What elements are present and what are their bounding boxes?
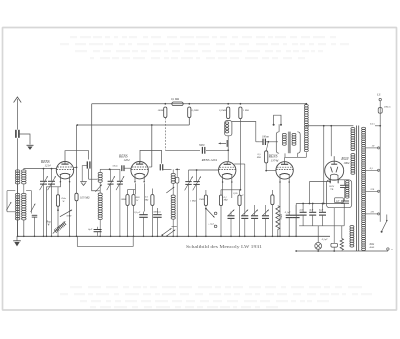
- capacitor C2 padding: [32, 214, 38, 216]
- svg-text:0,5µF: 0,5µF: [322, 238, 328, 241]
- svg-text:1064: 1064: [343, 161, 350, 165]
- node B1 R3: [164, 103, 166, 105]
- capacitor C7 50cm grid: [121, 165, 123, 171]
- wire T2 tap4: [366, 213, 379, 215]
- svg-text:1374d: 1374d: [271, 158, 279, 162]
- jack J1 sockets: [214, 212, 217, 215]
- tube V2 RENS1204: [131, 162, 148, 179]
- coil L2a grid winding top: [22, 170, 27, 172]
- transformer T2 left small winding: [346, 181, 350, 183]
- wire stage3 grid line: [175, 168, 180, 170]
- wire rail right drop: [343, 204, 345, 226]
- wire screen V2 up: [151, 125, 153, 167]
- capacitor C22 plates: [340, 184, 349, 186]
- antenna: [16, 99, 18, 130]
- wire L2 top to grid line: [24, 169, 28, 171]
- wire T1 bottom wires: [285, 153, 298, 157]
- variable capacitor C9: [119, 169, 121, 181]
- resistor R1 0.55M: [75, 193, 78, 201]
- wire V4 left leg: [279, 182, 281, 236]
- fuse LS 300cm: [378, 108, 382, 114]
- svg-text:2µF: 2µF: [299, 209, 304, 212]
- wire V2 left leg: [134, 183, 136, 194]
- wire R9 wires: [133, 190, 135, 195]
- wire rail y225: [299, 225, 344, 227]
- inductor CH2 HF choke: [304, 105, 308, 107]
- svg-text:Netz: Netz: [369, 243, 375, 246]
- jack J2 pickup: [274, 115, 281, 124]
- switch S5b: [165, 230, 174, 236]
- svg-text:1MΩ: 1MΩ: [120, 198, 125, 201]
- wire C5 down: [88, 169, 90, 180]
- wire drop x331: [330, 126, 332, 156]
- capacitor C11 bypass: [139, 214, 148, 216]
- capacitor C5 screen series: [86, 161, 88, 168]
- svg-text:MΩ: MΩ: [144, 198, 149, 201]
- variable capacitor C4 tuning: [48, 180, 55, 182]
- svg-text:1MΩ: 1MΩ: [199, 198, 204, 201]
- wire L2 bottom: [23, 220, 25, 236]
- svg-text:0,1MΩ: 0,1MΩ: [192, 109, 199, 112]
- wire V2 right leg: [144, 183, 146, 211]
- trimmer capacitor C19: [262, 215, 269, 217]
- resistor R16 zigzag: [276, 206, 280, 230]
- wire T2 tap3: [366, 190, 379, 192]
- ground below C5: [80, 181, 87, 183]
- switch S5 near bus: [163, 228, 172, 235]
- svg-text:1214: 1214: [45, 164, 52, 168]
- wire C23 vertical: [343, 203, 345, 208]
- lamp pilot: [315, 243, 322, 250]
- svg-text:0,5A: 0,5A: [370, 123, 375, 126]
- wire antenna to ground branch: [19, 134, 30, 145]
- transformer T2 left winding upper: [351, 128, 355, 130]
- resistor R8: [126, 195, 129, 206]
- wire filament link: [310, 181, 331, 183]
- wire L4 bottom to bus: [172, 219, 174, 236]
- wire R11 mid: [205, 206, 207, 209]
- wire below-bus loop: [77, 236, 133, 246]
- switch S1b wave-change mid: [31, 191, 33, 214]
- coil L2b grid winding bottom: [22, 193, 27, 195]
- resistor R6: [227, 107, 230, 119]
- tube V1 RENS1214: [56, 162, 73, 179]
- wire R10 wires: [151, 189, 153, 195]
- rheostat RegW hatched: [54, 230, 56, 233]
- wire tube V1 grid left: [55, 169, 57, 170]
- capacitor small box stage3: [176, 177, 179, 183]
- wire L3 top to grid: [100, 168, 109, 170]
- inductor CH1 anode choke: [225, 121, 232, 136]
- svg-text:4µF: 4µF: [319, 209, 324, 212]
- potentiometer arrow P1: [60, 210, 72, 217]
- resistor R17 box: [331, 243, 338, 247]
- wire RegW to bus: [57, 206, 59, 236]
- wire rail y203: [296, 203, 344, 205]
- capacitor C24 2uF: [300, 211, 307, 213]
- resistor R18 zigzag small: [340, 239, 343, 251]
- wire bus B1 HT line: [92, 103, 306, 105]
- svg-text:µF: µF: [241, 194, 244, 197]
- capacitor Cm below bus: [94, 229, 102, 231]
- resistor R11: [204, 195, 207, 206]
- wire tube V2 anode bracket: [140, 150, 162, 163]
- wire R8 wires: [127, 169, 129, 194]
- tube V5 RGN1064: [325, 161, 344, 180]
- wire V5 legs to box: [329, 180, 331, 183]
- wire C5 ground stub: [82, 166, 87, 182]
- transformer T2 core: [356, 126, 358, 252]
- switch S3 jack arm: [207, 209, 215, 218]
- svg-text:0,1MΩ: 0,1MΩ: [219, 109, 226, 112]
- resistor R7: [239, 107, 242, 119]
- wire R12 wires: [220, 190, 222, 195]
- variable capacitor C13: [188, 170, 190, 181]
- trimmer capacitor C15: [228, 215, 235, 217]
- wire tube V1 anode bracket: [65, 151, 89, 162]
- node stage1 grid junctions: [43, 168, 45, 170]
- switch S6 stage2 wavechange: [95, 185, 102, 192]
- svg-text:LS: LS: [376, 93, 381, 97]
- transformer T2 left winding low: [350, 226, 354, 228]
- svg-text:Schaltbild des Mencoly LW 1931: Schaltbild des Mencoly LW 1931: [186, 244, 262, 249]
- switch S1a wave-change left: [6, 191, 8, 212]
- wire bottom bus: [17, 235, 330, 237]
- variable capacitor C8: [110, 169, 112, 181]
- svg-text:50000: 50000: [158, 109, 165, 112]
- terminal LS: [379, 98, 381, 100]
- svg-text:1204: 1204: [124, 158, 131, 162]
- resistor R2 bias: [56, 195, 59, 207]
- coil L4a stage3 top: [171, 173, 175, 175]
- power unit box outline: [327, 180, 352, 208]
- wire V4 grid: [266, 170, 275, 172]
- wire grid coupling horizontal: [165, 149, 200, 151]
- node B1 R7: [240, 103, 242, 105]
- svg-text:5000: 5000: [66, 215, 72, 218]
- tube V4 RENS1374d: [276, 162, 293, 179]
- svg-text:←5µA: ←5µA: [208, 222, 215, 225]
- wire mains terminal: [387, 248, 389, 250]
- variable capacitor C14: [196, 170, 198, 181]
- svg-text:0,1µF: 0,1µF: [134, 211, 140, 214]
- svg-text:50cm: 50cm: [113, 164, 119, 167]
- capacitor block small TR: [335, 198, 344, 203]
- capacitor C10 coupling: [159, 164, 161, 170]
- wire R11 wires: [205, 170, 207, 195]
- capacitor C18 100cm: [262, 139, 264, 145]
- capacitor C3 tuning stub up: [43, 169, 45, 181]
- variable capacitor C3 tuning: [40, 180, 47, 182]
- wire C7 to tube V2: [124, 167, 131, 169]
- wire V3 left leg: [222, 182, 224, 195]
- ground main bus: [16, 236, 18, 240]
- wire stage1 grid line: [28, 168, 56, 170]
- svg-text:300cm: 300cm: [384, 105, 391, 108]
- wire CH1 top right branch: [232, 122, 256, 140]
- resistor R4 anode coupling: [172, 102, 183, 106]
- wire C6 to node: [206, 149, 228, 151]
- capacitor C12 bypass: [153, 214, 162, 216]
- wire V3 screen right: [234, 163, 245, 165]
- wire T1 left top: [278, 124, 280, 132]
- ground antenna branch: [27, 144, 34, 146]
- svg-text:6µF: 6µF: [88, 228, 93, 231]
- resistor R9: [132, 195, 135, 206]
- wire C22 vertical: [343, 180, 345, 186]
- wire grid2 line: [110, 168, 120, 170]
- capacitor C6 5000 series: [201, 147, 203, 154]
- capacitor C20: [286, 214, 293, 216]
- resistor R13: [238, 195, 241, 206]
- svg-text:RENS 1204: RENS 1204: [201, 158, 218, 162]
- resistor R10: [151, 195, 154, 206]
- wire T2 left top: [352, 126, 354, 128]
- wire drop x323: [323, 126, 325, 204]
- svg-text:400Ω: 400Ω: [279, 214, 282, 220]
- wire C10 to coil L4: [163, 169, 172, 171]
- wire LS down segment: [379, 126, 381, 131]
- transformer T1 AF right winding: [297, 132, 300, 153]
- capacitor C21: [293, 214, 300, 216]
- svg-text:0,55 MΩ: 0,55 MΩ: [80, 197, 89, 200]
- svg-text:0,1µF: 0,1µF: [285, 211, 291, 214]
- coil L3b grid coil stage2 lower: [98, 193, 102, 195]
- wire line3: [306, 125, 353, 127]
- wire L3 tap: [98, 190, 101, 192]
- trimmer capacitor C16: [241, 215, 248, 217]
- wire C18 right: [265, 141, 278, 143]
- capacitor C23 plates: [341, 200, 349, 202]
- node bus junction dots: [17, 236, 19, 238]
- svg-text:MΩ: MΩ: [223, 199, 228, 202]
- tube V3 RENS1204: [219, 162, 236, 179]
- wire L3b to bus: [99, 220, 101, 237]
- wire V1 cathode left leg: [47, 182, 61, 236]
- svg-text:1 MΩ: 1 MΩ: [190, 200, 196, 203]
- svg-text:100cm: 100cm: [262, 136, 269, 139]
- wire V4 right leg: [288, 182, 290, 211]
- resistor R12: [219, 195, 222, 206]
- wire bus B2 screen line: [77, 124, 189, 126]
- trimmer plate arrow: [226, 140, 228, 147]
- transformer T1 core: [288, 132, 291, 154]
- coil L1a antenna winding top: [15, 170, 20, 172]
- capacitor C26 4uF: [319, 211, 326, 213]
- coil L3a grid coil stage2: [98, 172, 102, 174]
- switch S2 stage3: [166, 187, 174, 193]
- resistor R15: [271, 195, 274, 205]
- trimmer capacitor C17: [251, 215, 258, 217]
- wire B1 left drop V1: [92, 104, 98, 191]
- svg-text:5000: 5000: [199, 144, 205, 147]
- transformer T2 right winding: [362, 127, 366, 129]
- wire R16 wires: [277, 182, 279, 205]
- transformer T1 AF left winding: [276, 132, 279, 153]
- wire tube V1 grid right to V2 vertical: [74, 166, 77, 168]
- capacitor C4 tuning stub: [51, 169, 53, 181]
- capacitor C1 antenna series: [15, 130, 17, 138]
- svg-text:0,1 MΩ: 0,1 MΩ: [171, 98, 179, 101]
- svg-text:MΩ: MΩ: [256, 156, 261, 159]
- wire C18 left lead: [259, 141, 263, 143]
- node B2 junctions: [151, 124, 153, 126]
- wire R1 to bus: [76, 201, 78, 237]
- wire tube V3 anode: [227, 150, 229, 162]
- ghost print bleed-through: [70, 36, 77, 38]
- wire R13 wires: [239, 190, 241, 195]
- wire V4 anode up: [284, 157, 286, 162]
- wire T2 tap1: [366, 147, 379, 149]
- svg-text:~: ~: [391, 248, 393, 252]
- wire V3 right leg: [231, 182, 233, 198]
- wire screen feed vertical: [76, 125, 78, 193]
- switch S4 mains: [382, 221, 387, 232]
- transformer T2 left winding mid: [351, 154, 355, 156]
- resistor R3: [164, 107, 167, 118]
- wire det vertical: [255, 140, 257, 142]
- wire LS line: [379, 101, 381, 222]
- coil L1b antenna winding bottom: [15, 193, 20, 195]
- resistor R14 grid leak: [265, 151, 268, 163]
- svg-text:TR: TR: [330, 188, 333, 191]
- wire L1 column: [17, 220, 19, 236]
- capacitor C25 4uF: [309, 211, 316, 213]
- svg-text:1 MΩ: 1 MΩ: [243, 109, 249, 112]
- wire lamp drop: [317, 226, 319, 243]
- wire T2 tap2: [366, 169, 379, 171]
- wire bottom rail right: [296, 250, 388, 252]
- wire CH1 to node: [227, 136, 229, 151]
- wire CH2 bottom: [305, 152, 307, 157]
- wire V1 cathode right leg: [69, 182, 71, 236]
- node B1 R5: [188, 103, 190, 105]
- svg-text:40-60: 40-60: [370, 246, 375, 249]
- wire box bottom drops: [333, 208, 335, 240]
- wire R7 drop: [239, 119, 241, 190]
- wire dashed grid feed: [164, 118, 166, 151]
- resistor R5: [188, 107, 191, 118]
- svg-text:5000cm: 5000cm: [153, 210, 161, 213]
- wire rail left drop: [295, 204, 297, 237]
- node B1 R6: [227, 103, 229, 105]
- svg-text:4µF: 4µF: [309, 209, 314, 212]
- coil L4b stage3 bottom: [171, 195, 175, 197]
